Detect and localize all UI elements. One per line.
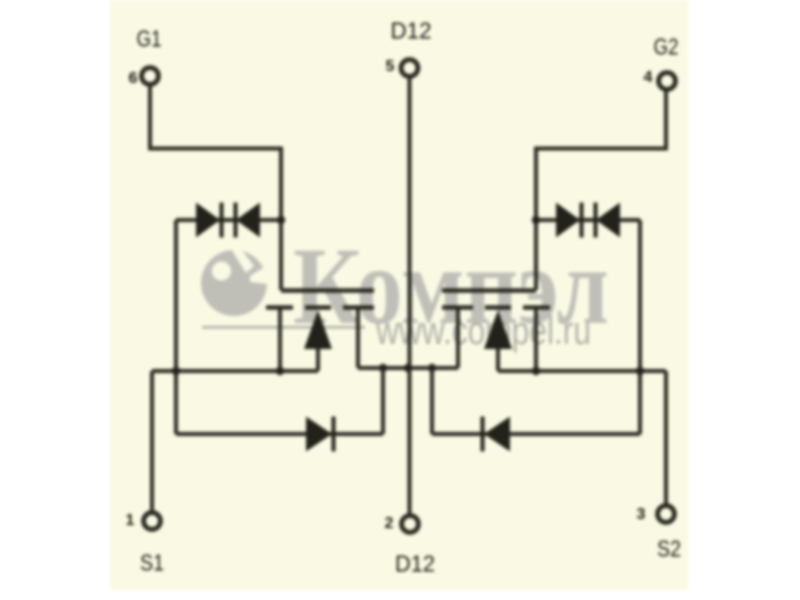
transistor Q2 drain contact: [456, 309, 460, 368]
node drain/body-diode left: [379, 364, 387, 372]
transistor Q2 arrow stem: [496, 348, 500, 371]
transistor Q2 body arrow: [484, 310, 512, 349]
svg-text:G1: G1: [137, 26, 162, 52]
wire ESD right leg: [638, 220, 642, 434]
pin G1: [142, 68, 159, 85]
transistor Q1 arrow stem: [316, 348, 320, 371]
node S2/ESD cross: [636, 367, 644, 375]
svg-text:D12: D12: [391, 18, 432, 44]
wire body diode leg right: [430, 368, 434, 434]
pin D12 bottom: [402, 516, 419, 533]
diode D6 body Q2: [481, 417, 511, 452]
transistor Q1 source contact: [278, 309, 282, 371]
svg-text:S2: S2: [657, 536, 681, 562]
svg-text:S1: S1: [140, 550, 164, 576]
svg-text:1: 1: [126, 512, 135, 529]
svg-text:D12: D12: [395, 551, 435, 577]
transistor Q1 channel: [266, 305, 374, 310]
wire ESD left leg: [174, 220, 178, 434]
watermark logo: [201, 244, 268, 316]
wire G2 to gate Q2: [536, 90, 666, 290]
node drain/D12: [404, 364, 412, 372]
node drain/body-diode right: [428, 364, 436, 372]
transistor Q1 drain contact: [356, 309, 360, 368]
wire source rail right: [498, 369, 666, 373]
wire G1 to gate Q1: [150, 85, 281, 290]
pin S2: [658, 506, 675, 523]
wire S1 riser: [150, 371, 154, 512]
wire body diode row left: [176, 432, 383, 436]
svg-text:6: 6: [129, 70, 138, 87]
wire ESD row left: [176, 218, 281, 222]
pin D12 top: [401, 60, 418, 77]
transistor Q2 gate bar: [442, 288, 536, 293]
svg-text:5: 5: [386, 58, 395, 75]
node gate2/ESD junction: [532, 216, 540, 224]
transistor Q1 gate bar: [281, 288, 374, 293]
transistor Q2 source contact: [534, 309, 538, 371]
svg-text:4: 4: [644, 69, 653, 86]
pin S1: [144, 513, 161, 530]
svg-text:2: 2: [385, 515, 394, 532]
wire body diode row right: [432, 432, 640, 436]
wire drain link: [358, 366, 458, 370]
wire body diode leg left: [381, 368, 385, 434]
node S1/source contact: [276, 367, 284, 375]
node gate1/ESD junction: [277, 216, 285, 224]
node S1/ESD cross: [172, 367, 180, 375]
pin G2: [659, 73, 676, 90]
watermark: [201, 225, 609, 353]
transistor Q2 channel: [442, 305, 550, 310]
node S2/source contact: [532, 367, 540, 375]
svg-text:3: 3: [637, 506, 646, 523]
wire D12 vertical: [408, 77, 412, 514]
wire ESD row right: [536, 218, 640, 222]
watermark underline: [202, 326, 365, 329]
diode D3 body Q1: [306, 417, 336, 452]
svg-text:G2: G2: [654, 34, 679, 60]
diode D2 zener right: [234, 203, 261, 238]
schematic panel background: [110, 0, 688, 590]
wire S2 riser: [664, 371, 668, 505]
diode D5 zener right: [594, 203, 621, 238]
diode D4 zener left: [556, 203, 584, 238]
diode D1 zener left: [196, 203, 224, 238]
transistor Q1 body arrow: [304, 310, 332, 349]
wire source rail left: [152, 369, 318, 373]
